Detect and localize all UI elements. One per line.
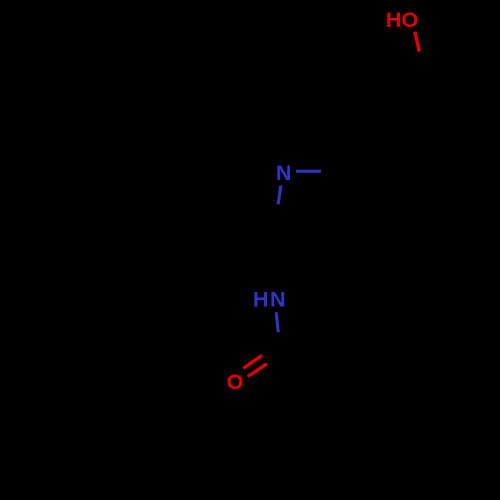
bond N-C(=O) stub [276, 312, 278, 332]
svg-text:N: N [276, 160, 292, 185]
carbonyl double bond line 1 [243, 355, 262, 368]
bond O-C stub (phenol) [415, 32, 420, 52]
svg-text:HN: HN [253, 287, 287, 312]
bond N-C stub diagonal [278, 186, 281, 205]
bond N-C stub horizontal [296, 170, 321, 173]
svg-text:HO: HO [386, 7, 418, 32]
svg-text:O: O [227, 369, 244, 394]
carbonyl double bond line 2 [248, 364, 267, 377]
